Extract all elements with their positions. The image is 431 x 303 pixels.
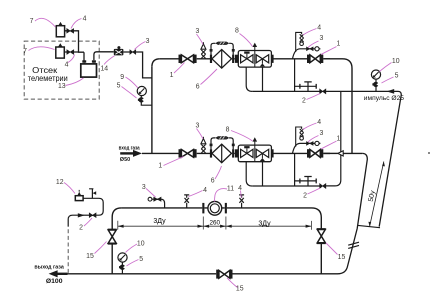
svg-text:4: 4 (317, 24, 321, 31)
svg-text:4: 4 (238, 185, 242, 192)
svg-text:1: 1 (336, 41, 340, 48)
svg-text:6: 6 (196, 83, 200, 90)
svg-text:10: 10 (137, 241, 145, 248)
svg-text:7: 7 (23, 48, 27, 55)
svg-text:Ø100: Ø100 (46, 279, 63, 285)
svg-text:2: 2 (79, 224, 83, 231)
svg-text:1: 1 (158, 162, 162, 169)
svg-text:2: 2 (302, 98, 306, 105)
svg-text:6: 6 (211, 178, 215, 185)
svg-text:2: 2 (303, 193, 307, 200)
svg-text:10: 10 (392, 58, 400, 65)
svg-text:телеметрии: телеметрии (28, 74, 68, 83)
svg-text:3: 3 (146, 38, 150, 45)
svg-text:3: 3 (195, 122, 199, 129)
svg-text:4: 4 (83, 15, 87, 22)
svg-text:Ø50: Ø50 (120, 157, 130, 163)
svg-text:12: 12 (56, 179, 64, 186)
svg-text:260: 260 (210, 220, 221, 227)
svg-text:3: 3 (319, 35, 323, 42)
svg-text:8: 8 (226, 127, 230, 134)
svg-text:3: 3 (319, 130, 323, 137)
svg-text:1: 1 (336, 135, 340, 142)
svg-text:3: 3 (142, 184, 146, 191)
svg-text:15: 15 (236, 286, 244, 293)
svg-text:9: 9 (120, 74, 124, 81)
svg-text:4: 4 (317, 119, 321, 126)
svg-text:13: 13 (58, 83, 66, 90)
svg-text:4: 4 (203, 187, 207, 194)
svg-text:4: 4 (65, 61, 69, 68)
svg-text:выход газа: выход газа (34, 265, 64, 271)
svg-text:5: 5 (139, 256, 143, 263)
svg-text:11: 11 (227, 185, 234, 192)
svg-text:8: 8 (235, 28, 239, 35)
svg-text:7: 7 (30, 18, 34, 25)
svg-text:15: 15 (338, 254, 346, 261)
svg-text:импульс Ø25: импульс Ø25 (364, 96, 405, 102)
svg-text:5: 5 (117, 83, 121, 90)
svg-text:вход газа: вход газа (119, 145, 141, 151)
svg-text:15: 15 (86, 253, 94, 260)
svg-text:1: 1 (170, 72, 174, 79)
svg-text:3Ду: 3Ду (153, 218, 166, 225)
svg-text:14: 14 (100, 65, 108, 72)
svg-text:3: 3 (195, 28, 199, 35)
svg-text:3Ду: 3Ду (258, 221, 271, 228)
svg-text:5: 5 (395, 73, 399, 80)
